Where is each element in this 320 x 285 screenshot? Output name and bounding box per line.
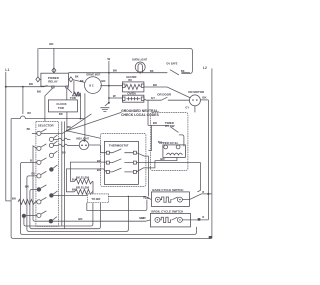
thermostat row1 terminals: [106, 151, 109, 154]
dr door switch blade: [161, 97, 167, 100]
wire L1 terminal drop: [6, 72, 12, 201]
wire selector right rail 2: [64, 121, 66, 228]
svg-text:BK: BK: [27, 128, 31, 131]
wire selector A4 left loop x26.5: [27, 176, 128, 232]
svg-text:W: W: [107, 57, 110, 61]
node bake feed junction: [128, 196, 130, 198]
wire left drop to relay: [37, 48, 39, 77]
svg-text:UPPER OV EL: UPPER OV EL: [159, 141, 179, 145]
node diamond relay right: [69, 77, 73, 82]
wire TO-BR out bake feed: [108, 196, 151, 199]
svg-text:OVEN LIGHT: OVEN LIGHT: [132, 58, 148, 61]
wire x23.5 loop: [24, 203, 93, 226]
svg-text:B: B: [30, 159, 32, 163]
wire x208 drop: [207, 100, 209, 220]
svg-text:BAKE CYCLE SWITCH: BAKE CYCLE SWITCH: [152, 188, 183, 192]
wire relay terminal to clock stub: [66, 88, 68, 100]
wire heater out to dr motor diagonal: [144, 87, 191, 98]
bake switch terminal L: [155, 197, 160, 202]
wire row3 right jog: [136, 161, 155, 172]
svg-text:DR DOOR: DR DOOR: [157, 93, 172, 97]
wire neutral W bus vertical: [108, 61, 110, 103]
node cross line junction: [80, 118, 82, 120]
selector terminal A1: [37, 131, 41, 135]
wire selector B1 squiggle: [54, 138, 59, 140]
oven elem terminal right: [141, 97, 144, 100]
svg-text:OVEN: OVEN: [127, 91, 135, 95]
wire row1 right jog to x148: [136, 153, 148, 197]
selector terminal A6: [37, 200, 41, 204]
wire elem join vertical: [92, 181, 94, 194]
wire selector A3 left loop x20: [20, 162, 196, 234]
wire A1 left stub: [32, 132, 37, 134]
selector terminal B2b: [49, 153, 53, 157]
thermostat row1 blade: [109, 149, 133, 153]
svg-text:DRIVE MOT: DRIVE MOT: [86, 73, 100, 76]
selector switch box: [36, 121, 59, 226]
wire x32.6 broil loop: [33, 146, 150, 221]
wire selector right rail 1: [61, 121, 63, 226]
wire dr motor bottom stub: [194, 106, 196, 113]
broil switch terminal R: [177, 217, 182, 222]
svg-text:L2: L2: [203, 66, 207, 70]
thermostat row3 blade: [109, 168, 133, 172]
selector terminal B4 dark: [49, 193, 53, 197]
heater zigzag: [125, 84, 140, 89]
svg-text:BR ELEM: BR ELEM: [76, 186, 90, 190]
selector terminal A4: [37, 174, 41, 178]
selector terminal B1: [49, 137, 53, 141]
selector terminal A3: [37, 160, 41, 164]
node ground junction: [108, 102, 110, 104]
wire clock bottom to hub: [66, 112, 68, 131]
svg-text:GY: GY: [151, 96, 155, 100]
wire relay left stub: [40, 78, 41, 80]
svg-text:BK: BK: [27, 112, 31, 115]
wire motor right to W bus: [100, 85, 122, 87]
broil output terminal square: [198, 218, 201, 221]
thermostat row3 terminals: [106, 170, 109, 173]
svg-text:BK: BK: [181, 70, 185, 73]
svg-text:BU: BU: [97, 168, 101, 172]
svg-text:BK: BK: [67, 126, 71, 129]
wire dr motor right to x208: [200, 99, 208, 101]
buzzer TOD triangles: [72, 92, 80, 96]
svg-text:R: R: [202, 216, 204, 219]
wire selector A1 to hub: [41, 131, 67, 134]
squiggle wire 2: [58, 144, 79, 147]
wire oven elem out: [144, 99, 162, 100]
drive motor B1 circle: [85, 77, 102, 94]
wire L2 bus: [211, 68, 213, 238]
selector terminal A5 dark: [37, 187, 41, 191]
wire relay bottom-right diagonal to buzzer: [67, 88, 72, 93]
dr motor dots: [192, 99, 194, 101]
bake cycle switch box: [151, 192, 189, 207]
oven elem terminal left: [122, 97, 125, 100]
bake element terminal L: [164, 145, 168, 149]
lamp filament omega: [138, 64, 142, 73]
svg-text:W: W: [113, 94, 116, 98]
wire door switch right seg: [181, 72, 190, 74]
svg-text:BK: BK: [80, 80, 84, 83]
svg-text:B C: B C: [89, 85, 94, 88]
wire row3 left to broil elem R: [66, 169, 106, 192]
heater terminal right: [141, 84, 144, 87]
wire timer feed left: [148, 125, 169, 150]
wire BR line elem bottom: [155, 157, 177, 160]
relay bottom terminal 2: [66, 86, 68, 88]
indicator light DS2 circle: [79, 140, 88, 149]
resistor small motor zigzag: [73, 81, 75, 94]
wire top bus BK: [38, 48, 192, 73]
wire broil output: [182, 219, 208, 221]
node bake output junction: [207, 193, 209, 195]
wire bake output: [182, 194, 212, 200]
wire bus y72 lamp-door: [68, 72, 167, 74]
wire A7 to dark terminal: [26, 214, 37, 216]
resistor bake element zigzag: [74, 179, 93, 184]
svg-text:BK: BK: [150, 70, 154, 73]
oven elem ticks: [126, 97, 140, 101]
thermostat row2 terminals: [106, 161, 109, 164]
resistor zigzag left W: [18, 199, 37, 204]
svg-text:TOD: TOD: [58, 106, 64, 110]
svg-text:THERMOSTAT: THERMOSTAT: [109, 143, 129, 147]
svg-text:IND LIGHT: IND LIGHT: [76, 137, 89, 140]
node diamond relay top: [52, 68, 56, 73]
node W bus junction y85: [108, 85, 110, 87]
bake switch blade: [160, 197, 177, 202]
TO-BR dashed box: [87, 194, 108, 203]
wire hub steep diagonal: [67, 114, 92, 131]
thermostat outer enclosure: [100, 133, 145, 186]
wire oven elem branch down: [147, 100, 149, 125]
wire row2 right to x200: [136, 163, 200, 192]
wire timer right seg: [179, 135, 184, 147]
svg-text:L1: L1: [5, 68, 9, 72]
wire row2 left to bake elem R: [70, 162, 106, 181]
svg-text:BK: BK: [128, 79, 132, 82]
broil switch blade: [160, 217, 177, 222]
wire L1 bus: [6, 85, 48, 86]
svg-text:OV SW: OV SW: [165, 124, 175, 128]
ground symbol: [100, 103, 109, 112]
indicator light marks: [81, 144, 87, 146]
svg-text:OV SAFE: OV SAFE: [166, 63, 177, 66]
oven lamp DS1 circle: [135, 62, 145, 72]
terminal dark circle x23.5: [22, 214, 26, 218]
wire long cross line y118 with hop: [11, 116, 85, 119]
svg-text:GY: GY: [185, 106, 189, 109]
bake element box: [163, 145, 186, 158]
selector terminal B3 dark: [49, 167, 53, 171]
thermostat box: [104, 141, 138, 184]
svg-text:TO BR: TO BR: [91, 197, 101, 201]
wire relay top feed: [53, 48, 55, 72]
wire ind light to thermostat: [89, 145, 107, 153]
node lamp junction: [139, 72, 141, 74]
timer switch blade: [170, 126, 179, 132]
svg-text:B: B: [202, 191, 204, 194]
bake switch terminal R: [177, 197, 182, 202]
node diamond relay left: [36, 77, 40, 82]
svg-text:TOD: TOD: [70, 96, 76, 100]
wire dr switch to dr motor: [168, 99, 190, 101]
broil switch terminal L: [155, 217, 160, 222]
svg-text:BR: BR: [59, 113, 63, 116]
node L1 bus x22.5 dot: [22, 86, 24, 88]
dr motor B2 circle: [189, 95, 200, 106]
selector terminal A7: [37, 213, 41, 217]
bake element humps: [166, 153, 182, 155]
heater box HTR1: [122, 82, 143, 92]
wire selector A5 left loop x29.5: [30, 189, 101, 228]
door switch blade: [170, 70, 179, 75]
svg-text:DR MOTOR: DR MOTOR: [188, 90, 205, 94]
clock box TOD: [48, 100, 77, 112]
bake element terminal R: [176, 145, 180, 149]
svg-text:BU: BU: [62, 152, 66, 155]
svg-text:BK ELEM: BK ELEM: [76, 175, 90, 179]
wire motor bottom drop 1: [84, 93, 86, 140]
node L1 bus dot: [5, 86, 7, 88]
relay K1 box POWER RELAY: [41, 73, 69, 86]
wire selector B2 to squiggle2: [54, 144, 59, 146]
broil cycle switch box: [150, 213, 190, 227]
selector terminal B2: [49, 143, 53, 147]
wire W bus to oven elem: [109, 97, 123, 99]
svg-text:BK: BK: [75, 76, 79, 79]
junction hub J: [66, 130, 68, 132]
svg-text:CHECK LOCAL CODES: CHECK LOCAL CODES: [121, 113, 159, 117]
resistor broil element zigzag: [74, 189, 93, 194]
leader to grounded neutral text: [67, 112, 122, 130]
node W bus junction y97: [108, 97, 110, 99]
node ind light top dot: [83, 140, 85, 142]
wire bake line y210: [87, 200, 147, 211]
selector terminal A2: [37, 146, 41, 150]
wire left loop outer x10.7 to bottom bus: [11, 119, 212, 239]
heater terminal left: [122, 84, 125, 87]
wire stub L1bus to hop x22.5: [22, 87, 24, 114]
selector terminal B5 dark: [49, 219, 53, 223]
oven enclosure right: [150, 112, 188, 170]
svg-text:SELECTOR: SELECTOR: [38, 123, 55, 127]
wire relay bottom-left diagonal to selector feed: [45, 88, 53, 122]
wire motor bottom drop 2: [79, 93, 81, 119]
wire relay right to motor: [73, 80, 85, 83]
wire hub to thermostat diagonal: [67, 131, 101, 139]
svg-text:BROIL CYCLE SWITCH: BROIL CYCLE SWITCH: [151, 210, 183, 214]
svg-text:RELAY: RELAY: [48, 80, 58, 84]
oven element box HTR2: [122, 95, 143, 102]
node L2 bottom corner square: [209, 236, 212, 239]
relay bottom terminal 1: [52, 86, 54, 88]
thermostat row2 blade: [109, 159, 133, 163]
node W bus junction y72: [108, 72, 110, 74]
wire selector B4 to TO-BR box: [54, 194, 88, 196]
squiggle wire 1: [58, 138, 70, 141]
